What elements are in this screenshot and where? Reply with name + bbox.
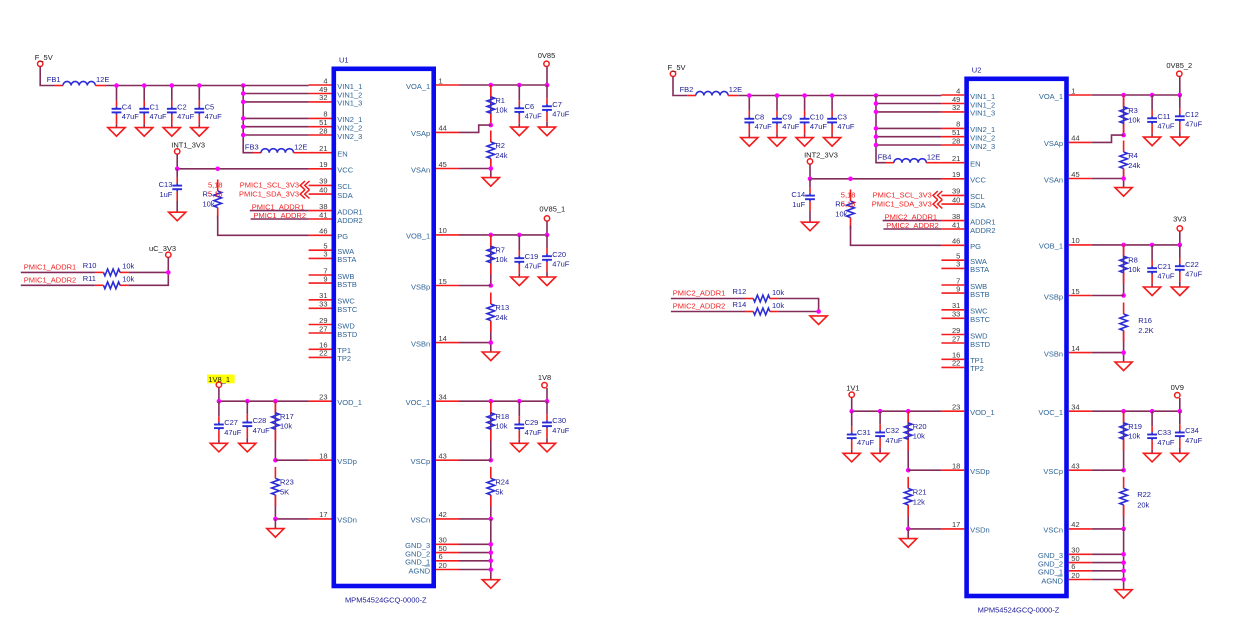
ground (482, 580, 499, 589)
junction (808, 177, 813, 182)
junction (1121, 527, 1126, 532)
svg-text:47uF: 47uF (1157, 122, 1175, 131)
capacitor C34 47uF (1175, 411, 1203, 453)
svg-text:R18: R18 (495, 412, 509, 421)
net label PMIC1_ADDR2 (24, 275, 77, 284)
junction (273, 399, 278, 404)
wire VIN branch (243, 93, 308, 95)
wire VOB_1 0V85_1 (459, 221, 547, 235)
svg-text:3: 3 (956, 260, 960, 269)
resistor R11 10k (83, 274, 135, 289)
junction (273, 517, 278, 522)
svg-text:C3: C3 (837, 112, 847, 121)
svg-text:C28: C28 (253, 416, 267, 425)
junction (1121, 93, 1126, 98)
svg-text:22: 22 (319, 349, 327, 358)
power flag 1V8 (538, 373, 551, 388)
wire divider low (490, 495, 492, 519)
svg-text:20: 20 (439, 561, 447, 570)
pin 10 VOB_1 (1039, 236, 1092, 251)
svg-text:33: 33 (952, 310, 960, 319)
svg-text:C14: C14 (791, 190, 805, 199)
resistor R19 10k (1120, 411, 1142, 451)
svg-text:R17: R17 (280, 412, 294, 421)
junction (245, 399, 250, 404)
wire VOB_1 3V3 (1092, 231, 1180, 245)
wire VIN branch (243, 101, 308, 103)
pin 38 ADDR1 (309, 202, 363, 217)
pin 5 SWA (309, 242, 355, 257)
svg-text:VOD_1: VOD_1 (970, 408, 995, 417)
svg-text:VOA_1: VOA_1 (406, 82, 430, 91)
svg-text:44: 44 (1071, 134, 1079, 143)
svg-text:5K: 5K (280, 487, 289, 496)
svg-text:C19: C19 (525, 252, 539, 261)
svg-text:47uF: 47uF (810, 122, 828, 131)
svg-text:TP2: TP2 (337, 354, 351, 363)
svg-text:34: 34 (1071, 403, 1079, 412)
junction (142, 83, 147, 88)
svg-text:R16: R16 (1138, 316, 1152, 325)
junction (874, 110, 879, 115)
wire 1V1 VOD_1 (852, 398, 942, 412)
svg-text:C6: C6 (525, 102, 535, 111)
wire GND branch (459, 560, 491, 562)
pin 41 ADDR2 (941, 220, 995, 235)
pin 21 EN (309, 144, 348, 159)
wire VIN bus (243, 86, 253, 153)
svg-text:R22: R22 (1137, 490, 1151, 499)
svg-text:47uF: 47uF (525, 428, 543, 437)
capacitor C29 47uF (514, 401, 542, 443)
wire GND branch (1092, 553, 1124, 555)
pin 43 VSCp (1043, 462, 1091, 477)
svg-text:39: 39 (952, 187, 960, 196)
junction (874, 101, 879, 106)
junction (878, 409, 883, 414)
pin 46 PG (941, 237, 981, 252)
wire PMIC2_ADDR2 (671, 311, 745, 313)
power flag 3V3 (1173, 215, 1186, 231)
ground (267, 529, 284, 538)
svg-text:SCL: SCL (337, 182, 352, 191)
capacitor C10 47uF (800, 96, 828, 138)
resistor R7 10k (487, 235, 508, 275)
svg-text:C1: C1 (150, 102, 160, 111)
junction (874, 93, 879, 98)
ground (239, 443, 256, 452)
ground (538, 277, 555, 286)
wire VIN branch (876, 103, 941, 105)
svg-text:17: 17 (952, 520, 960, 529)
svg-text:FB4: FB4 (878, 152, 892, 161)
resistor R22 20k (1120, 477, 1151, 517)
wire divider low (1123, 169, 1125, 179)
svg-text:23: 23 (952, 403, 960, 412)
svg-text:27: 27 (319, 324, 327, 333)
svg-text:ADDR2: ADDR2 (970, 226, 995, 235)
junction (489, 567, 494, 572)
svg-text:VSAp: VSAp (1044, 139, 1063, 148)
capacitor C14 1uF (791, 179, 814, 222)
pin 10 VOB_1 (406, 226, 459, 241)
junction (545, 83, 550, 88)
capacitor C3 47uF (827, 96, 855, 138)
svg-text:10k: 10k (280, 422, 292, 431)
junction (170, 83, 175, 88)
junction (241, 116, 246, 121)
svg-text:15: 15 (439, 277, 447, 286)
svg-text:R2: R2 (495, 141, 505, 150)
pin 38 ADDR1 (941, 212, 995, 227)
svg-text:47uF: 47uF (837, 122, 855, 131)
svg-text:VIN1_3: VIN1_3 (970, 109, 995, 118)
svg-text:20k: 20k (1137, 500, 1149, 509)
svg-text:PMIC1_ADDR2: PMIC1_ADDR2 (24, 275, 77, 284)
wire GND branch (1092, 570, 1124, 572)
wire divider low (1123, 505, 1125, 529)
svg-text:24k: 24k (495, 151, 507, 160)
svg-text:PG: PG (337, 232, 348, 241)
svg-text:46: 46 (319, 227, 327, 236)
junction (906, 468, 911, 473)
svg-text:10k: 10k (1128, 265, 1140, 274)
junction (114, 83, 119, 88)
svg-text:41: 41 (952, 220, 960, 229)
wire GND bus (1123, 529, 1125, 590)
svg-text:C20: C20 (552, 250, 566, 259)
wire VSBp (1092, 295, 1124, 297)
wire R11 to uC_3V3 (129, 258, 169, 286)
pin 21 EN (941, 154, 980, 169)
junction (1121, 560, 1126, 565)
net label PMIC1_SCL_3V3 (873, 191, 932, 200)
svg-text:INT2_3V3: INT2_3V3 (804, 151, 838, 160)
svg-text:5,18: 5,18 (208, 180, 223, 189)
svg-text:C4: C4 (122, 102, 132, 111)
pin 17 VSDn (309, 510, 357, 525)
svg-text:C13: C13 (159, 180, 173, 189)
wire GND bus (490, 519, 492, 580)
pin 30 GND_3 (405, 536, 459, 551)
wire PMIC1_ADDR1 (21, 271, 95, 273)
svg-text:10k: 10k (122, 262, 134, 271)
pin 23 VOD_1 (309, 393, 362, 408)
svg-text:C30: C30 (552, 416, 566, 425)
resistor R20 10k (904, 411, 926, 451)
pin 49 VIN1_2 (941, 95, 995, 110)
svg-text:47uF: 47uF (857, 438, 875, 447)
power flag INT2_3V3 (804, 151, 838, 164)
net label PMIC1_SDA_3V3 (239, 189, 299, 198)
pin 31 SWC (309, 291, 356, 306)
pin 33 BSTC (309, 300, 358, 315)
wire VSAp (459, 125, 491, 132)
svg-text:17: 17 (319, 510, 327, 519)
junction (489, 340, 494, 345)
svg-text:FB3: FB3 (245, 142, 259, 151)
svg-text:3V3: 3V3 (1173, 215, 1186, 224)
svg-text:12k: 12k (913, 497, 925, 506)
capacitor C8 47uF (744, 96, 772, 138)
junction (489, 458, 494, 463)
pin 16 TP1 (309, 341, 351, 356)
svg-text:R14: R14 (733, 300, 747, 309)
net label PMIC2_ADDR2 (673, 302, 726, 311)
ground (1115, 362, 1132, 371)
pin 4 VIN1_1 (941, 86, 995, 101)
svg-text:VSCp: VSCp (1043, 467, 1063, 476)
resistor R2 24k (487, 131, 508, 171)
resistor R10 10k (83, 261, 135, 276)
pin 20 AGND (409, 561, 459, 576)
net label PMIC1_SCL_3V3 (240, 181, 299, 190)
svg-text:C12: C12 (1185, 110, 1199, 119)
svg-text:1V1: 1V1 (846, 384, 859, 393)
svg-text:28: 28 (319, 126, 327, 135)
svg-text:39: 39 (319, 177, 327, 186)
resistor R21 12k (904, 477, 926, 517)
ground (1115, 590, 1132, 599)
svg-text:VSAn: VSAn (1044, 175, 1063, 184)
svg-text:0V85_1: 0V85_1 (539, 205, 565, 214)
off-page connector (300, 190, 309, 199)
ground (741, 138, 758, 147)
junction (1121, 176, 1126, 181)
wire VSDp (908, 469, 941, 471)
svg-text:12E: 12E (96, 75, 109, 84)
svg-text:47uF: 47uF (552, 260, 570, 269)
pin 22 TP2 (309, 349, 351, 364)
pin 50 GND_2 (1038, 554, 1092, 569)
svg-text:47uF: 47uF (177, 112, 195, 121)
svg-text:44: 44 (439, 124, 447, 133)
svg-text:1uF: 1uF (792, 200, 805, 209)
pin 34 VOC_1 (1038, 403, 1091, 418)
capacitor C30 47uF (542, 401, 570, 443)
wire VSBn (459, 343, 491, 352)
ground (843, 453, 860, 462)
IC U1 MPM54524GCQ-0000-Z (334, 56, 434, 605)
pin 40 SDA (941, 195, 985, 210)
svg-text:PMIC1_SCL_3V3: PMIC1_SCL_3V3 (873, 191, 932, 200)
wire GND branch (1092, 562, 1124, 564)
pin 6 GND_1 (405, 552, 459, 567)
wire VOC divider (490, 401, 492, 460)
svg-text:SDA: SDA (970, 201, 985, 210)
wire divider low (274, 495, 276, 519)
wire VIN branch (876, 144, 941, 146)
svg-text:6: 6 (1071, 562, 1075, 571)
pin 27 BSTD (309, 324, 358, 339)
svg-text:10: 10 (439, 226, 447, 235)
svg-text:47uF: 47uF (1185, 270, 1203, 279)
pin 46 PG (309, 227, 349, 242)
svg-text:C8: C8 (755, 112, 765, 121)
power flag F_5V (35, 53, 53, 66)
svg-text:BSTA: BSTA (970, 265, 989, 274)
capacitor C13 1uF (159, 169, 182, 212)
wire VIN branch (243, 126, 308, 128)
svg-text:C31: C31 (857, 428, 871, 437)
junction (906, 409, 911, 414)
svg-text:1: 1 (1071, 86, 1075, 95)
wire VOB divider (1123, 245, 1125, 296)
svg-text:10k: 10k (1128, 432, 1140, 441)
junction (489, 166, 494, 171)
svg-text:VSBp: VSBp (1044, 292, 1063, 301)
junction (217, 399, 222, 404)
pin 19 VCC (309, 160, 354, 175)
ferrite bead FB4 12E (878, 152, 941, 162)
pin 51 VIN2_2 (941, 128, 995, 143)
wire VOC_1 0V9 (1092, 398, 1180, 411)
svg-text:27: 27 (952, 334, 960, 343)
svg-text:C21: C21 (1157, 262, 1171, 271)
wire VOA_1 0V85 (459, 67, 547, 86)
svg-text:18: 18 (319, 452, 327, 461)
svg-text:R24: R24 (495, 478, 509, 487)
svg-text:47uF: 47uF (224, 428, 242, 437)
svg-text:10k: 10k (495, 106, 507, 115)
capacitor C32 47uF (875, 411, 903, 453)
svg-text:15: 15 (1071, 287, 1079, 296)
pin 45 VSAn (411, 160, 459, 175)
wire VSCn (459, 518, 491, 520)
junction (1150, 93, 1155, 98)
svg-text:PMIC1_SCL_3V3: PMIC1_SCL_3V3 (240, 181, 299, 190)
pin 6 GND_1 (1038, 562, 1092, 577)
svg-text:6: 6 (439, 552, 443, 561)
wire R10 to uC_3V3 (129, 271, 169, 273)
svg-text:47uF: 47uF (552, 426, 570, 435)
junction (775, 93, 780, 98)
wire ADDR2 (883, 228, 941, 230)
svg-text:2.2K: 2.2K (1138, 326, 1153, 335)
svg-text:VCC: VCC (970, 176, 986, 185)
junction (1121, 133, 1126, 138)
pin 23 VOD_1 (941, 403, 994, 418)
wire GND branch (459, 543, 491, 545)
svg-text:10k: 10k (913, 432, 925, 441)
wire VOC divider (1123, 411, 1125, 470)
junction (489, 83, 494, 88)
svg-text:C34: C34 (1185, 426, 1199, 435)
svg-text:BSTB: BSTB (970, 290, 990, 299)
svg-text:AGND: AGND (1041, 576, 1063, 585)
resistor R18 10k (487, 401, 509, 441)
ground (796, 138, 813, 147)
svg-text:47uF: 47uF (1185, 436, 1203, 445)
svg-text:FB1: FB1 (47, 75, 61, 84)
svg-text:47uF: 47uF (552, 110, 570, 119)
power flag uC_3V3 (149, 244, 176, 258)
pin 8 VIN2_1 (309, 110, 363, 125)
pin 22 TP2 (941, 359, 983, 374)
wire VIN branch (876, 127, 941, 129)
svg-text:PMIC1_ADDR1: PMIC1_ADDR1 (24, 262, 77, 271)
svg-text:10k: 10k (835, 210, 847, 219)
capacitor C7 47uF (542, 85, 570, 127)
pin 4 VIN1_1 (309, 76, 363, 91)
svg-text:43: 43 (439, 452, 447, 461)
svg-text:VSBp: VSBp (411, 282, 430, 291)
pin 18 VSDp (941, 462, 989, 477)
svg-text:VIN2_3: VIN2_3 (337, 132, 362, 141)
ground (872, 453, 889, 462)
net label PMIC2_ADDR1 (885, 213, 938, 222)
svg-text:10k: 10k (495, 422, 507, 431)
svg-text:BSTB: BSTB (337, 280, 357, 289)
pin 19 VCC (941, 170, 986, 185)
wire divider low (907, 505, 909, 529)
svg-text:5,18: 5,18 (841, 200, 856, 209)
svg-text:PMIC1_SDA_3V3: PMIC1_SDA_3V3 (872, 199, 932, 208)
svg-text:VSCp: VSCp (411, 457, 431, 466)
junction (489, 550, 494, 555)
svg-text:12E: 12E (729, 85, 742, 94)
svg-text:VSDn: VSDn (337, 516, 357, 525)
svg-text:VOB_1: VOB_1 (1039, 242, 1063, 251)
svg-text:VIN1_3: VIN1_3 (337, 99, 362, 108)
svg-text:R20: R20 (913, 422, 927, 431)
net label PMIC1_ADDR2 (253, 211, 306, 220)
svg-text:BSTD: BSTD (970, 340, 991, 349)
wire GND branch (459, 569, 491, 571)
junction (802, 93, 807, 98)
svg-text:EN: EN (337, 150, 347, 159)
svg-text:1: 1 (439, 76, 443, 85)
pin 27 BSTD (941, 334, 990, 349)
svg-text:34: 34 (439, 393, 447, 402)
resistor R8 10k (1120, 245, 1141, 285)
junction (545, 399, 550, 404)
pin 17 VSDn (941, 520, 989, 535)
svg-text:PMIC2_ADDR2: PMIC2_ADDR2 (673, 302, 726, 311)
pin 41 ADDR2 (309, 210, 363, 225)
svg-text:R3: R3 (1128, 106, 1138, 115)
wire divider low (490, 159, 492, 169)
ground (511, 277, 528, 286)
svg-text:1uF: 1uF (159, 190, 172, 199)
pin 32 VIN1_3 (309, 93, 363, 108)
svg-text:47uF: 47uF (782, 122, 800, 131)
wire divider low (1123, 331, 1125, 353)
pin 14 VSBn (411, 334, 459, 349)
junction (545, 233, 550, 238)
wire VOC_1 1V8 (459, 388, 547, 401)
junction (489, 123, 494, 128)
svg-text:PMIC1_SDA_3V3: PMIC1_SDA_3V3 (239, 189, 299, 198)
wire VSCn (1092, 528, 1124, 530)
svg-text:24k: 24k (1128, 161, 1140, 170)
ground (1171, 453, 1188, 462)
svg-text:42: 42 (1071, 520, 1079, 529)
wire VOB divider (490, 235, 492, 286)
resistor R16 2.2K (1120, 303, 1154, 343)
junction (1150, 243, 1155, 248)
capacitor C31 47uF (847, 411, 875, 453)
pin 16 TP1 (941, 351, 983, 366)
ground (108, 128, 125, 137)
svg-text:20: 20 (1071, 571, 1079, 580)
pin 1 VOA_1 (1039, 86, 1092, 101)
ground (1171, 137, 1188, 146)
svg-text:VSBn: VSBn (411, 339, 430, 348)
svg-text:0V85_2: 0V85_2 (1166, 61, 1192, 70)
pin 3 BSTA (309, 250, 357, 265)
junction (517, 399, 522, 404)
